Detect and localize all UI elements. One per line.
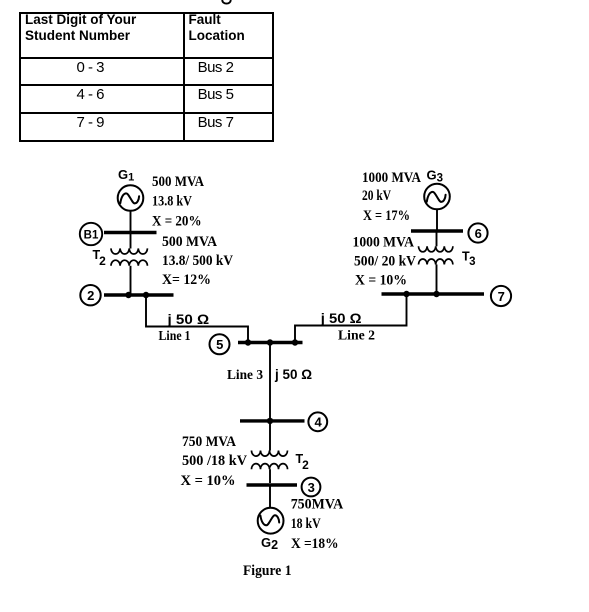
bus 5 bar [238, 341, 303, 344]
Line 3 impedance label j 50 ohm [274, 366, 312, 382]
wire bus 4 to transformer T2 [269, 421, 271, 451]
svg-text:G1: G1 [118, 167, 134, 184]
junction dot bus2 right [143, 292, 149, 298]
junction dot bus5 middle [267, 339, 273, 345]
svg-text:750MVA: 750MVA [291, 497, 344, 513]
T1 ratings text [162, 234, 233, 288]
wire Line 1 [146, 295, 248, 341]
junction dot bus5 right [292, 339, 298, 345]
bus label 4 [308, 412, 327, 431]
label G3 [427, 168, 444, 185]
transformer T2 (bottom) windings [252, 451, 288, 457]
svg-text:6: 6 [475, 226, 482, 241]
transformer T1 (left) windings [111, 248, 147, 254]
svg-text:13.8 kV: 13.8 kV [152, 194, 192, 210]
table: fault location assignment [19, 12, 274, 142]
svg-text:j 50 Ω: j 50 Ω [166, 311, 209, 327]
svg-text:T2: T2 [296, 452, 310, 472]
Line 1 name label [159, 329, 191, 344]
label G2 [261, 535, 278, 552]
bus 1 bar [104, 231, 157, 234]
svg-text:T2: T2 [93, 248, 107, 268]
svg-text:750 MVA: 750 MVA [182, 434, 236, 450]
svg-text:T3: T3 [462, 250, 476, 269]
bus 6 bar [411, 229, 463, 232]
label T2 (bottom transformer) [296, 452, 310, 472]
junction dot bus5 left [245, 339, 251, 345]
svg-text:G3: G3 [427, 168, 444, 185]
svg-text:5: 5 [216, 337, 223, 352]
label T3 [462, 250, 476, 269]
svg-text:Line 3: Line 3 [227, 368, 263, 383]
svg-text:X = 10%: X = 10% [355, 273, 407, 289]
svg-text:Line 1: Line 1 [159, 329, 191, 344]
cropped descender loop of letter g from heading above [222, 0, 230, 4]
svg-text:X = 10%: X = 10% [181, 473, 236, 489]
caption Figure 1 [243, 563, 292, 579]
Line 2 impedance label j 50 ohm [320, 310, 362, 326]
label G1 [118, 167, 134, 184]
T2 (bottom) ratings text [181, 434, 248, 489]
wire G3 to bus 6 [436, 209, 438, 229]
bus label 7 [491, 286, 511, 306]
bus label B1 [80, 223, 102, 245]
transformer T3 windings [419, 246, 453, 252]
svg-text:X = 20%: X = 20% [152, 213, 202, 229]
svg-text:500 MVA: 500 MVA [162, 234, 217, 250]
svg-text:4: 4 [314, 415, 322, 430]
bus 3 bar [247, 483, 298, 486]
wire bus 6 to transformer T3 [436, 231, 438, 246]
svg-text:7: 7 [498, 289, 505, 304]
svg-text:X = 17%: X = 17% [363, 208, 410, 224]
svg-text:B1: B1 [84, 230, 99, 242]
bus 7 bar [382, 292, 485, 295]
Line 1 impedance label j 50 ohm [166, 311, 209, 327]
junction dot bus4 [267, 418, 273, 424]
svg-text:Line 2: Line 2 [338, 329, 375, 344]
bus label 3 [302, 478, 321, 497]
wire bus 1 to transformer T1 [130, 233, 132, 249]
svg-text:13.8/ 500 kV: 13.8/ 500 kV [162, 253, 233, 269]
svg-text:3: 3 [308, 480, 315, 495]
svg-text:1000 MVA: 1000 MVA [362, 170, 421, 186]
Line 2 name label [338, 329, 375, 344]
svg-text:500 MVA: 500 MVA [152, 174, 204, 190]
wire bus 3 to generator G2 [269, 485, 271, 508]
svg-text:1000 MVA: 1000 MVA [353, 235, 415, 251]
svg-text:G2: G2 [261, 535, 278, 552]
label T2 (left transformer) [93, 248, 107, 268]
svg-text:X =18%: X =18% [291, 536, 339, 552]
junction dot bus7 left [403, 291, 409, 297]
svg-text:500/ 20 kV: 500/ 20 kV [354, 254, 416, 270]
T3 ratings text [353, 235, 417, 289]
junction dot bus2 left [125, 292, 131, 298]
G2 ratings text [291, 497, 344, 553]
wire G1 to bus 1 [130, 211, 132, 231]
svg-text:500 /18 kV: 500 /18 kV [182, 453, 247, 469]
wire Line 3 [269, 343, 271, 420]
svg-text:18 kV: 18 kV [291, 516, 321, 532]
svg-text:20 kV: 20 kV [362, 188, 391, 204]
generator G2 [258, 508, 284, 534]
wire transformer T3 to bus 7 [436, 265, 438, 293]
svg-text:2: 2 [87, 288, 94, 303]
svg-text:X= 12%: X= 12% [162, 272, 211, 288]
bus 2 bar [104, 293, 174, 296]
svg-text:Figure 1: Figure 1 [243, 563, 292, 579]
wire Line 2 [295, 294, 407, 341]
generator G3 [424, 184, 450, 210]
junction dot bus7 right [433, 291, 439, 297]
bus 4 bar [240, 419, 305, 422]
generator G1 [118, 185, 144, 211]
bus label 6 [468, 223, 487, 242]
wire transformer T2 to bus 3 [269, 469, 271, 483]
G1 ratings text [152, 174, 204, 229]
wire transformer T1 to bus 2 [130, 266, 132, 294]
Line 3 name label [227, 368, 263, 383]
bus label 2 [80, 285, 100, 305]
bus label 5 [210, 334, 230, 354]
G3 ratings text [362, 170, 421, 224]
svg-text:j 50 Ω: j 50 Ω [274, 366, 312, 382]
svg-text:j 50 Ω: j 50 Ω [320, 310, 362, 326]
